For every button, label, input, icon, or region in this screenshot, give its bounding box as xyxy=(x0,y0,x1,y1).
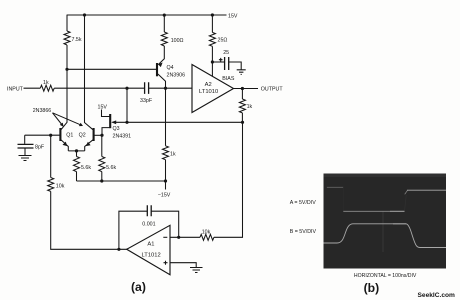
wire Q2 base xyxy=(95,134,102,136)
wire 8pF top lead xyxy=(24,135,26,144)
node rail-Q2collector xyxy=(83,13,86,16)
resistor 1k middle xyxy=(163,146,169,160)
node rail-5.6k right xyxy=(100,179,103,182)
wire 7.5k lower lead to Q4 base node xyxy=(66,45,68,69)
resistor 5.6k right xyxy=(99,157,105,172)
wire A1 inverting input xyxy=(170,236,200,238)
node Q1 base / 8pF / 10k xyxy=(49,134,52,137)
wire Q3 gate line to feedback node xyxy=(113,121,243,123)
node gate line xyxy=(125,121,128,124)
resistor 7.5k xyxy=(64,31,70,45)
svg-text:10k: 10k xyxy=(202,229,211,235)
wire left 5.6k lower lead xyxy=(76,172,78,181)
wire input to 33pF xyxy=(54,87,144,89)
wire 25ohm to bias node xyxy=(211,46,213,62)
svg-text:1k: 1k xyxy=(170,151,176,157)
transistor Q4 bar xyxy=(156,63,158,76)
resistor 25ohm lead upper xyxy=(211,15,213,32)
capacitor 8pF plates xyxy=(18,144,34,148)
capacitor 25 plates xyxy=(225,57,229,70)
scope trace A fall xyxy=(342,187,344,211)
scope trace A low bright tail xyxy=(390,210,405,212)
node A2 input / Q4 collector xyxy=(164,87,167,90)
svg-text:25: 25 xyxy=(223,50,229,56)
node Q2 base / Q3 source xyxy=(100,134,103,137)
transistor Q4 2N3906 arrow (emitter, PNP) xyxy=(158,63,163,68)
svg-text:A1: A1 xyxy=(147,242,154,248)
resistor 25ohm xyxy=(209,32,215,46)
svg-text:LT1012: LT1012 xyxy=(142,252,161,258)
svg-text:LT1010: LT1010 xyxy=(199,89,218,95)
scope trace B xyxy=(324,224,447,248)
svg-text:B = 5V/DIV: B = 5V/DIV xyxy=(290,229,317,235)
svg-text:10k: 10k xyxy=(56,183,65,189)
resistor 10k feedback xyxy=(200,234,214,240)
wire right 5.6k upper lead xyxy=(101,135,103,156)
svg-text:15V: 15V xyxy=(228,14,238,20)
wire 10k to A1 output xyxy=(51,191,127,249)
svg-text:BIAS: BIAS xyxy=(222,76,235,82)
label A1 plus xyxy=(164,261,168,265)
node output xyxy=(241,87,244,90)
wire 33pF to A2 input xyxy=(149,87,192,89)
svg-text:15V: 15V xyxy=(98,105,108,111)
svg-text:2N3906: 2N3906 xyxy=(167,73,186,79)
svg-text:2N3866: 2N3866 xyxy=(33,108,52,114)
svg-text:5.6k: 5.6k xyxy=(106,165,116,171)
svg-text:A = 5V/DIV: A = 5V/DIV xyxy=(290,200,317,206)
capacitor 0.001 plates xyxy=(147,205,151,216)
svg-text:5.6k: 5.6k xyxy=(81,165,91,171)
node rail-1k xyxy=(164,179,167,182)
svg-text:Q3: Q3 xyxy=(113,126,120,132)
node emitters xyxy=(75,149,78,152)
ground 8pF xyxy=(19,156,32,161)
wire summing node down to gate line xyxy=(126,88,128,122)
wire Q2 collector vertical xyxy=(85,15,94,130)
node rail-25ohm xyxy=(211,13,214,16)
wire Q1 collector vertical xyxy=(61,69,67,130)
ground bias cap xyxy=(237,70,246,75)
capacitor 25 plus sign xyxy=(219,58,223,62)
svg-text:7.5k: 7.5k xyxy=(72,37,82,43)
svg-text:SeekIC.com: SeekIC.com xyxy=(418,292,456,299)
node 7.5k / Q4 base xyxy=(65,68,68,71)
wire feedback cap left leg xyxy=(119,211,147,249)
resistor 100ohm lead upper xyxy=(163,15,165,32)
node A1 inv input xyxy=(177,236,180,239)
scope graticule center vertical xyxy=(382,211,384,252)
wire A2 output xyxy=(234,88,259,90)
wire A2 input node down to 1k middle xyxy=(165,88,167,146)
scope trace A left high segment xyxy=(327,186,343,188)
node summing xyxy=(125,87,128,90)
resistor 5.6k left xyxy=(74,157,80,172)
svg-text:(a): (a) xyxy=(131,280,146,294)
svg-text:Q2: Q2 xyxy=(79,132,86,138)
wire 1k middle to -15V rail xyxy=(165,160,167,181)
node bias xyxy=(211,60,214,63)
svg-text:OUTPUT: OUTPUT xyxy=(261,87,284,93)
svg-text:(b): (b) xyxy=(364,281,380,295)
svg-text:Q4: Q4 xyxy=(167,65,174,71)
svg-text:2N4391: 2N4391 xyxy=(113,134,132,140)
wire Q3 drain xyxy=(102,110,110,117)
svg-text:0.001: 0.001 xyxy=(142,222,155,228)
scope trace B top bright spot xyxy=(393,223,406,225)
transistor Q2 bar xyxy=(93,128,95,141)
svg-text:33pF: 33pF xyxy=(140,98,153,104)
scope photo black screen xyxy=(324,174,447,269)
wire input lead xyxy=(24,87,41,89)
svg-text:HORIZONTAL = 100ns/DIV: HORIZONTAL = 100ns/DIV xyxy=(354,273,417,279)
wire right 5.6k lower lead xyxy=(101,172,103,181)
svg-text:1k: 1k xyxy=(43,80,49,86)
svg-text:Q1: Q1 xyxy=(66,132,73,138)
transistor Q3 bar xyxy=(109,114,111,128)
resistor 10k left xyxy=(48,178,54,192)
svg-text:100Ω: 100Ω xyxy=(171,38,184,44)
wire cap 25 to ground xyxy=(229,62,241,70)
node A1 output / feedback cap xyxy=(117,248,120,251)
svg-text:INPUT: INPUT xyxy=(7,87,24,93)
scope trace A right high segment xyxy=(407,189,446,191)
wire feedback cap right leg xyxy=(151,211,178,237)
wire 10k left upper lead xyxy=(50,135,52,177)
label A1 minus xyxy=(163,236,167,238)
node rail-100ohm xyxy=(163,14,166,17)
transistor Q1 bar xyxy=(59,128,61,141)
transistor Q3 gate arrow xyxy=(111,120,116,124)
capacitor 33pF plates xyxy=(145,82,149,94)
wire Q4 collector xyxy=(158,74,166,88)
resistor 100ohm xyxy=(161,32,167,46)
svg-text:−15V: −15V xyxy=(158,193,171,199)
resistor 1k output xyxy=(239,99,245,113)
wire 1k output to feedback node xyxy=(241,113,243,122)
scope photo top light band xyxy=(324,174,447,178)
arrow Q2 emitter xyxy=(86,142,91,146)
wire 7.5k upper lead xyxy=(66,15,68,31)
wire bias node to cap 25 xyxy=(212,61,224,63)
wire -15V rail xyxy=(77,180,166,182)
wire Q3 source xyxy=(102,128,110,136)
wire bias pin into A2 xyxy=(211,62,213,77)
wire output to 1k xyxy=(241,89,243,100)
wire Q1 emitter xyxy=(61,140,68,151)
wire emitter bottom xyxy=(68,150,84,152)
arrow to Q2 xyxy=(53,113,81,125)
wire Q2 emitter xyxy=(85,140,93,151)
wire Q4 base xyxy=(67,68,156,70)
wire 8pF bottom lead xyxy=(24,148,26,155)
node feedback xyxy=(241,121,244,124)
wire Q1 base xyxy=(25,134,60,136)
scope trace A rise upper part xyxy=(405,190,408,194)
svg-text:A2: A2 xyxy=(205,82,212,88)
wire -15V stub xyxy=(165,181,167,190)
svg-text:25Ω: 25Ω xyxy=(218,38,228,44)
scope trace A low segment xyxy=(343,210,404,212)
wire 10k feedback to output node xyxy=(214,122,243,237)
svg-text:1k: 1k xyxy=(247,104,253,110)
resistor 1k input xyxy=(40,85,54,91)
wire 100ohm to Q4 emitter xyxy=(158,46,164,65)
wire A1 noninverting input xyxy=(170,263,196,268)
arrow to Q1 xyxy=(53,113,62,125)
wire left 5.6k upper lead xyxy=(76,151,78,157)
arrow Q1 emitter xyxy=(63,142,68,147)
op-amp A2 LT1010 xyxy=(192,65,234,113)
scope trace A rise lower part xyxy=(405,195,407,211)
ground A1 plus input xyxy=(190,268,203,273)
svg-text:8pF: 8pF xyxy=(35,145,45,151)
op-amp A1 LT1012 (points left) xyxy=(127,225,170,274)
wire top +15V rail xyxy=(67,14,227,16)
